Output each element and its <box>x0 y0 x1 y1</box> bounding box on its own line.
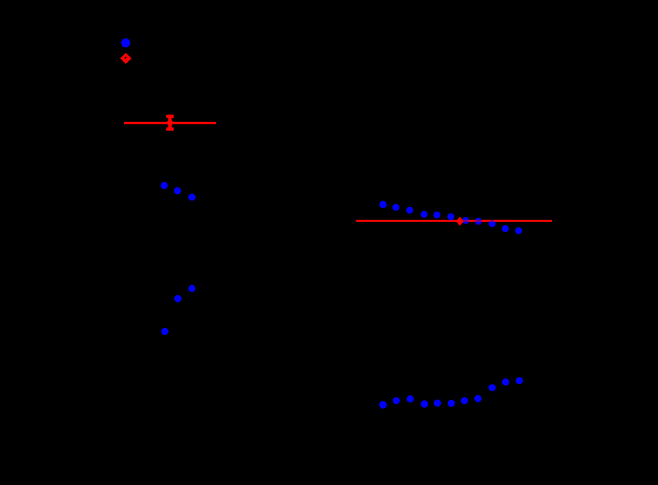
right panel lower: blue data point 10 <box>502 378 509 385</box>
right panel lower: blue data point 11 <box>516 377 523 384</box>
right panel upper: blue data point 7 <box>462 217 469 224</box>
left panel: blue data point 2 <box>174 187 181 194</box>
right panel upper: blue data point 10 <box>502 225 509 232</box>
right panel lower: blue data point 1 <box>379 401 387 409</box>
right panel upper: blue data point 5 <box>433 211 440 218</box>
left panel: red open diamond marker <box>120 53 132 64</box>
right panel lower: blue data point 2 <box>393 397 400 404</box>
left panel: blue data point top <box>121 38 130 47</box>
right panel: red model line <box>356 220 552 222</box>
right panel lower: blue data point 9 <box>489 384 496 391</box>
right panel upper: blue data point 6 <box>447 213 454 220</box>
right panel lower: blue data point 6 <box>448 400 455 407</box>
left panel: black hole of open diamond <box>124 57 127 59</box>
right panel: red filled diamond marker <box>456 217 464 226</box>
right panel upper: blue data point 9 <box>489 220 496 227</box>
right panel lower: blue data point 7 <box>461 397 468 404</box>
right panel lower: blue data point 4 <box>421 400 428 407</box>
left panel: red diamond marker on error bar <box>166 119 175 127</box>
right panel upper: blue data point 3 <box>406 207 413 214</box>
right panel lower: blue data point 5 <box>434 400 441 407</box>
left panel: red error bar stem <box>168 115 172 131</box>
right panel upper: blue data point 2 <box>392 204 399 211</box>
right panel upper: blue data point 11 <box>515 227 522 234</box>
left panel: red model line <box>124 122 216 124</box>
left panel lower: blue data point 4 <box>188 285 195 292</box>
left panel: red error bar bottom cap <box>166 127 174 130</box>
right panel: red line blend overlay across points 7-9 <box>461 220 498 222</box>
left panel: blue data point 1 <box>161 182 168 189</box>
left panel: blue data point 3 <box>188 194 195 201</box>
left panel lower: blue data point 5 <box>174 295 181 302</box>
right panel upper: blue data point 4 <box>421 211 428 218</box>
right panel lower: blue data point 3 <box>407 395 414 402</box>
right panel upper: blue data point 8 <box>475 218 482 225</box>
left panel lower: blue data point 6 <box>161 328 168 335</box>
right panel upper: blue data point 1 <box>379 201 386 208</box>
left panel: red error bar top cap <box>166 115 174 118</box>
right panel lower: blue data point 8 <box>474 395 481 402</box>
